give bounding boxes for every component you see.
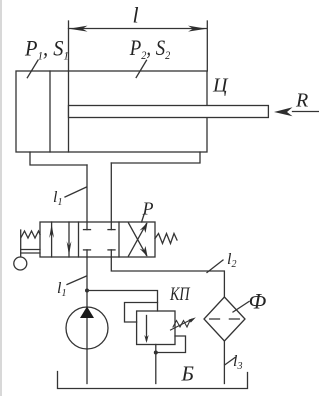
dimension line l bbox=[69, 28, 207, 30]
piston right face bbox=[68, 71, 70, 152]
wire: pump suction line bbox=[86, 349, 88, 384]
svg-text:l: l bbox=[133, 3, 139, 28]
dimension l extension line left bbox=[68, 21, 70, 71]
wire: relief valve outlet to tank bbox=[155, 345, 157, 384]
wire: return line l2 to filter bbox=[111, 257, 224, 297]
valve spring left bbox=[21, 231, 40, 238]
relief valve adjustable spring bbox=[173, 321, 190, 328]
svg-text:КП: КП bbox=[169, 284, 190, 305]
leader line F bbox=[233, 302, 249, 313]
relief valve KP body bbox=[137, 311, 175, 345]
leader line P1,S1 bbox=[27, 60, 38, 77]
valve divider right bbox=[118, 222, 120, 257]
svg-text:Ц: Ц bbox=[212, 75, 229, 97]
svg-text:Б: Б bbox=[181, 362, 194, 386]
valve right square crossed arrows bbox=[129, 224, 147, 257]
filter F diamond bbox=[204, 297, 245, 341]
wire: line B to valve bbox=[110, 163, 112, 230]
tank B bbox=[58, 372, 248, 389]
pump circle bbox=[66, 307, 108, 349]
filter element dashed line bbox=[210, 318, 240, 320]
valve middle square blocked port bars bbox=[84, 229, 91, 231]
leader line l1 lower bbox=[67, 276, 87, 285]
valve divider left bbox=[78, 222, 80, 257]
force R arrow bbox=[293, 111, 320, 113]
valve middle square bottom stubs bbox=[86, 250, 88, 257]
dimension arrowhead left bbox=[69, 26, 88, 32]
relief valve internal arrow bbox=[146, 316, 148, 341]
valve actuator lever bbox=[20, 230, 22, 257]
svg-text:R: R bbox=[295, 90, 308, 112]
cylinder body Ц bbox=[16, 71, 207, 152]
node: junction pressure line bbox=[85, 289, 89, 293]
svg-text:P2, S2: P2, S2 bbox=[129, 35, 170, 62]
dimension l extension line right bbox=[206, 21, 208, 71]
wire: line l1 (A) to valve bbox=[86, 165, 88, 230]
wire: cylinder right port bbox=[111, 152, 200, 163]
leader line l2 bbox=[207, 260, 223, 273]
wire: cylinder left port bbox=[30, 152, 87, 165]
svg-text:P1, S1: P1, S1 bbox=[24, 35, 69, 62]
pump flow triangle bbox=[80, 307, 94, 319]
wire: pressure line to pump bbox=[86, 257, 88, 349]
leader line P2,S2 bbox=[136, 60, 146, 77]
dimension arrowhead right bbox=[188, 26, 207, 32]
valve left square up arrow bbox=[51, 222, 53, 257]
directional valve P body bbox=[40, 222, 155, 257]
valve spring right bbox=[155, 234, 177, 244]
page edge shading bbox=[0, 0, 2, 396]
wire: relief valve drain loop bbox=[156, 336, 186, 353]
wire: filter return line l3 bbox=[223, 341, 225, 384]
piston left face bbox=[49, 71, 51, 152]
piston rod bbox=[69, 106, 269, 118]
wire: branch to relief valve bbox=[87, 291, 158, 312]
valve left square down arrow bbox=[68, 222, 70, 257]
svg-text:Ф: Ф bbox=[249, 289, 267, 314]
node: junction relief outlet bbox=[154, 351, 158, 355]
svg-text:Р: Р bbox=[142, 199, 154, 219]
wire: relief valve pilot loop bbox=[125, 303, 158, 323]
leader line P valve bbox=[142, 215, 144, 223]
leader line l3 bbox=[225, 358, 235, 366]
valve actuator roller bbox=[14, 257, 27, 270]
leader line l1 upper bbox=[65, 187, 87, 197]
